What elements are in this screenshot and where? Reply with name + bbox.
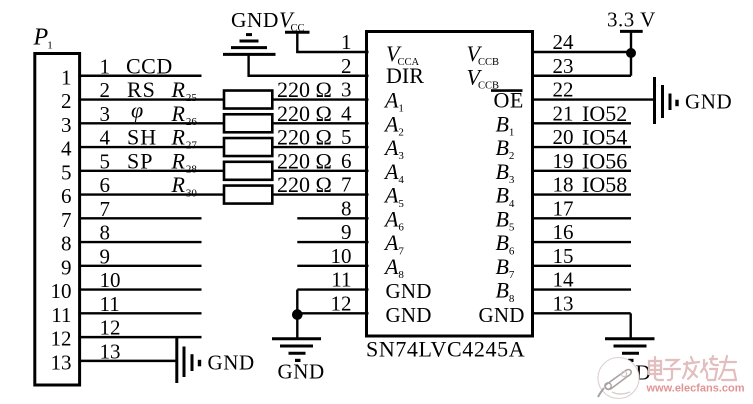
svg-text:18: 18: [553, 173, 574, 197]
net label IO54: [582, 125, 627, 150]
svg-text:B: B: [496, 111, 509, 136]
svg-text:13: 13: [51, 350, 72, 374]
power symbol VCC (T-bar): [285, 31, 310, 34]
svg-text:11: 11: [51, 303, 71, 327]
IC pin 11 number: [331, 268, 351, 292]
IC pin14 label B8: [496, 278, 515, 305]
IC U1 SN74LVC4245A body: [367, 32, 533, 337]
wire resistor R26 to IC pin 4: [271, 122, 368, 124]
svg-text:1: 1: [47, 40, 53, 52]
wire GND net vertical: [296, 290, 298, 339]
svg-text:R: R: [171, 172, 186, 197]
svg-text:10: 10: [331, 244, 352, 268]
IC pin 9 number: [341, 220, 352, 244]
IC pin10 label A8: [383, 254, 404, 281]
resistor R28 body: [224, 162, 272, 180]
IC pin 13 number: [553, 291, 574, 315]
svg-text:24: 24: [553, 30, 575, 54]
svg-text:19: 19: [553, 149, 574, 173]
IC pin3 label A1: [383, 88, 404, 115]
power symbol 3.3V (T-bar): [620, 31, 643, 53]
IC pin 10 number: [331, 244, 352, 268]
IC pin2 label DIR: [386, 63, 424, 88]
wire IC pin16 stub: [532, 241, 632, 243]
GND label (middle bottom): [278, 360, 325, 384]
IC pin 4 number: [341, 101, 352, 125]
IC pin 21 number: [553, 101, 574, 125]
resistor R25 body: [224, 91, 272, 109]
watermark text dianzifashaoyou (vector): [649, 356, 736, 380]
IC pin1 label VCCA: [386, 41, 420, 68]
value label 220 ohm (pin 7): [277, 172, 332, 197]
P1 pin2 wire number label: [100, 78, 111, 102]
svg-text:2: 2: [100, 78, 111, 102]
svg-text:220 Ω: 220 Ω: [277, 148, 332, 173]
svg-text:7: 7: [398, 245, 404, 257]
GND label (P1 pin13): [208, 351, 255, 375]
net label phi: [131, 97, 143, 122]
IC pin7 label A5: [383, 183, 404, 210]
IC pin 1 number: [341, 30, 352, 54]
IC pin 8 number: [341, 196, 352, 220]
P1 pin8 wire number label: [100, 221, 111, 245]
svg-text:GND: GND: [479, 303, 525, 327]
net label IO52: [582, 101, 627, 126]
svg-text:SH: SH: [127, 125, 157, 150]
svg-text:3: 3: [61, 113, 72, 137]
resistor R30 body: [224, 186, 272, 204]
svg-text:R: R: [171, 77, 186, 102]
svg-text:14: 14: [553, 268, 575, 292]
wire IC pin20 stub: [532, 146, 632, 148]
svg-text:27: 27: [186, 140, 198, 152]
wire IC pin9 stub: [297, 241, 368, 243]
P1 pin 1 number (inside): [61, 65, 72, 89]
svg-text:10: 10: [100, 268, 121, 292]
IC pin23 label VCCB: [467, 64, 500, 91]
svg-text:GND: GND: [386, 279, 432, 303]
ground symbol (OE, sideways): [655, 77, 678, 124]
svg-text:9: 9: [61, 255, 72, 279]
svg-text:φ: φ: [131, 97, 143, 122]
net label SH: [127, 125, 157, 150]
svg-text:6: 6: [509, 245, 515, 257]
svg-text:12: 12: [100, 316, 121, 340]
resistor R27 refdes: [171, 125, 198, 152]
svg-text:11: 11: [331, 268, 351, 292]
svg-text:4: 4: [61, 137, 72, 161]
svg-text:SN74LVC4245A: SN74LVC4245A: [366, 337, 525, 362]
svg-text:3: 3: [509, 174, 515, 186]
wire IC pin18 stub: [532, 193, 632, 195]
wire P1 pin10 stub: [78, 288, 201, 290]
junction dot (GND net): [292, 309, 303, 320]
svg-text:9: 9: [341, 220, 352, 244]
svg-text:20: 20: [553, 125, 574, 149]
IC pin 2 number: [341, 54, 352, 78]
wire P1 pin2 to resistor R25: [78, 98, 226, 100]
svg-text:5: 5: [61, 160, 72, 184]
IC pin15 label B7: [496, 254, 515, 281]
svg-text:15: 15: [553, 244, 574, 268]
svg-text:7: 7: [100, 197, 111, 221]
wire IC pin13 to GND: [532, 313, 631, 339]
svg-text:3.3 V: 3.3 V: [607, 8, 656, 32]
svg-text:25: 25: [186, 92, 198, 104]
P1 pin5 wire number label: [100, 149, 111, 173]
svg-text:13: 13: [100, 339, 121, 363]
svg-text:IO52: IO52: [582, 101, 627, 126]
svg-text:1: 1: [100, 54, 111, 78]
IC pin 17 number: [553, 196, 574, 220]
wire IC pin24 to 3.3V node: [532, 51, 632, 53]
net label IO56: [582, 148, 627, 173]
svg-text:220 Ω: 220 Ω: [277, 172, 332, 197]
svg-text:B: B: [496, 254, 509, 279]
IC pin6 label A4: [383, 159, 404, 186]
svg-text:R: R: [171, 101, 186, 126]
svg-text:6: 6: [398, 222, 404, 234]
svg-text:7: 7: [61, 208, 72, 232]
P1 pin4 wire number label: [100, 126, 111, 150]
IC pin8 label A6: [383, 206, 404, 233]
svg-text:2: 2: [341, 54, 352, 78]
svg-text:5: 5: [509, 222, 515, 234]
P1 pin6 wire number label: [100, 173, 111, 197]
IC pin17 label B5: [496, 206, 515, 233]
svg-text:7: 7: [341, 173, 352, 197]
IC pin 24 number: [553, 30, 575, 54]
ground symbol (bottom right): [605, 339, 655, 361]
P1 pin 8 number (inside): [61, 232, 72, 256]
IC pin 14 number: [553, 268, 575, 292]
P1 pin13 wire number label: [100, 339, 121, 363]
P1 pin3 wire number label: [100, 102, 111, 126]
svg-text:IO58: IO58: [582, 172, 627, 197]
value label 220 ohm (pin 5): [277, 125, 332, 150]
value label 220 ohm (pin 6): [277, 148, 332, 173]
IC part number label SN74LVC4245A: [366, 337, 525, 362]
svg-text:1: 1: [509, 126, 514, 138]
svg-text:28: 28: [186, 164, 198, 176]
P1 pin12 wire number label: [100, 316, 121, 340]
3.3V label: [607, 8, 656, 32]
IC pin4 label A2: [383, 111, 404, 138]
wire IC pin10 stub: [297, 265, 368, 267]
svg-text:CCB: CCB: [478, 57, 499, 68]
svg-text:220 Ω: 220 Ω: [277, 77, 332, 102]
svg-text:4: 4: [509, 198, 515, 210]
wire P1 pin8 stub: [78, 241, 201, 243]
svg-text:12: 12: [331, 291, 352, 315]
wire resistor R28 to IC pin 6: [271, 170, 368, 172]
svg-text:6: 6: [61, 184, 72, 208]
IC pin 22 number: [553, 78, 574, 102]
P1 pin 12 number (inside): [51, 327, 72, 351]
P1 pin7 wire number label: [100, 197, 111, 221]
P1 pin 4 number (inside): [61, 137, 72, 161]
svg-text:4: 4: [341, 101, 352, 125]
net label CCD: [126, 53, 173, 78]
IC pin20 label B2: [496, 135, 515, 162]
svg-text:6: 6: [341, 149, 352, 173]
P1 pin10 wire number label: [100, 268, 121, 292]
svg-text:B: B: [496, 278, 509, 303]
IC pin12 label GND: [386, 303, 432, 327]
P1 pin 11 number (inside): [51, 303, 71, 327]
wire IC pin11 (GND): [297, 288, 368, 290]
svg-text:3: 3: [398, 150, 404, 162]
svg-text:SP: SP: [127, 148, 153, 173]
IC pin16 label B6: [496, 230, 515, 257]
wire IC pin14 stub: [532, 288, 632, 290]
connector P1 refdes label P1: [33, 25, 53, 52]
P1 pin 2 number (inside): [61, 89, 72, 113]
wire P1 pin3 to resistor R26: [78, 122, 226, 124]
svg-text:4: 4: [398, 174, 404, 186]
svg-text:4: 4: [100, 126, 111, 150]
svg-text:1: 1: [398, 103, 404, 115]
wire IC pin21 stub: [532, 122, 632, 124]
wire IC pin12 (GND): [297, 312, 368, 314]
svg-text:16: 16: [553, 220, 574, 244]
svg-text:8: 8: [61, 232, 72, 256]
svg-text:21: 21: [553, 101, 574, 125]
resistor R28 refdes: [171, 148, 198, 175]
wire IC pin23 to 3.3V node: [532, 53, 632, 76]
P1 pin11 wire number label: [100, 292, 120, 316]
wire IC pin22 (OE) to GND: [532, 98, 654, 100]
IC pin 3 number: [341, 78, 352, 102]
resistor R30 refdes: [171, 172, 198, 199]
net label SP: [127, 148, 153, 173]
watermark text www.elecfans.com: [646, 383, 745, 395]
wire P1 pin9 stub: [78, 265, 201, 267]
wire IC pin8 stub: [297, 217, 368, 219]
svg-text:5: 5: [341, 125, 352, 149]
P1 pin 9 number (inside): [61, 255, 72, 279]
wire P1 pin6 to resistor R30: [78, 193, 226, 195]
svg-text:5: 5: [398, 198, 404, 210]
svg-text:10: 10: [51, 279, 72, 303]
svg-text:A: A: [383, 183, 399, 208]
svg-text:A: A: [383, 206, 399, 231]
value label 220 ohm (pin 3): [277, 77, 332, 102]
IC pin9 label A7: [383, 230, 404, 257]
power symbol GND (top, pointing up): [223, 35, 276, 55]
P1 pin 5 number (inside): [61, 160, 72, 184]
GND label (top): [231, 8, 279, 32]
wire IC pin15 stub: [532, 265, 632, 267]
IC pin 19 number: [553, 149, 574, 173]
svg-text:B: B: [496, 159, 509, 184]
svg-text:6: 6: [100, 173, 111, 197]
svg-text:P: P: [33, 25, 49, 51]
IC pin18 label B4: [496, 183, 515, 210]
resistor R26 body: [224, 114, 272, 132]
svg-text:A: A: [383, 254, 399, 279]
wire P1 pin11 stub: [78, 312, 201, 314]
svg-text:B: B: [496, 183, 509, 208]
svg-text:B: B: [496, 206, 509, 231]
IC pin22 label OE with overline: [491, 88, 524, 113]
IC pin 16 number: [553, 220, 574, 244]
P1 pin1 wire number label 1: [100, 54, 111, 78]
svg-text:26: 26: [186, 116, 198, 128]
svg-text:A: A: [383, 111, 399, 136]
IC pin 20 number: [553, 125, 574, 149]
wire IC pin17 stub: [532, 217, 632, 219]
wire IC pin19 stub: [532, 170, 632, 172]
svg-text:IO54: IO54: [582, 125, 627, 150]
svg-text:3: 3: [100, 102, 111, 126]
IC pin 7 number: [341, 173, 352, 197]
svg-text:9: 9: [100, 244, 111, 268]
svg-text:IO56: IO56: [582, 148, 627, 173]
P1 pin 10 number (inside): [51, 279, 72, 303]
net label IO58: [582, 172, 627, 197]
VCC label: [279, 7, 305, 34]
svg-text:7: 7: [509, 269, 515, 281]
svg-text:A: A: [383, 88, 399, 113]
wire P1 pin4 to resistor R27: [78, 146, 226, 148]
svg-text:8: 8: [100, 221, 111, 245]
wire P1 pin7 stub: [78, 217, 201, 219]
IC pin5 label A3: [383, 135, 404, 162]
wire P1 pin5 to resistor R28: [78, 170, 226, 172]
svg-text:GND: GND: [386, 303, 432, 327]
svg-text:13: 13: [553, 291, 574, 315]
IC pin 18 number: [553, 173, 574, 197]
wire P1 pin12 stub: [78, 336, 201, 338]
svg-text:1: 1: [61, 65, 72, 89]
svg-text:B: B: [496, 230, 509, 255]
ground symbol (P1 pin13, sideways): [177, 338, 200, 383]
wire VCC to IC pin1 (VCCA): [296, 32, 368, 53]
svg-text:2: 2: [61, 89, 72, 113]
resistor R27 body: [224, 138, 272, 156]
IC pin19 label B3: [496, 159, 515, 186]
svg-text:GND: GND: [278, 360, 325, 384]
P1 pin 3 number (inside): [61, 113, 72, 137]
IC pin 15 number: [553, 244, 574, 268]
value label 220 ohm (pin 4): [277, 101, 332, 126]
P1 pin9 wire number label: [100, 244, 111, 268]
svg-text:11: 11: [100, 292, 120, 316]
IC pin21 label B1: [496, 111, 515, 138]
P1 pin 6 number (inside): [61, 184, 72, 208]
svg-text:A: A: [383, 135, 399, 160]
IC pin 23 number: [553, 54, 574, 78]
P1 pin 7 number (inside): [61, 208, 72, 232]
connector P1 body: [35, 54, 80, 386]
junction dot (3.3V net): [626, 48, 636, 58]
GND label (bottom right, partly covered by watermark): [604, 361, 651, 385]
svg-text:23: 23: [553, 54, 574, 78]
svg-text:30: 30: [186, 187, 198, 199]
svg-text:8: 8: [341, 196, 352, 220]
wire P1 pin1 CCD stub: [78, 75, 201, 77]
net label RS: [127, 77, 156, 102]
IC pin 6 number: [341, 149, 352, 173]
svg-text:2: 2: [509, 150, 514, 162]
svg-text:R: R: [171, 125, 186, 150]
resistor R25 refdes: [171, 77, 198, 104]
svg-text:17: 17: [553, 196, 574, 220]
svg-text:220 Ω: 220 Ω: [277, 101, 332, 126]
wire P1 pin13 to GND: [78, 360, 176, 362]
svg-text:3: 3: [341, 78, 352, 102]
IC pin 5 number: [341, 125, 352, 149]
resistor R26 refdes: [171, 101, 198, 128]
svg-text:www.elecfans.com: www.elecfans.com: [646, 383, 745, 395]
svg-text:R: R: [171, 148, 186, 173]
svg-text:GND: GND: [208, 351, 255, 375]
svg-text:1: 1: [341, 30, 352, 54]
IC pin24 label VCCB: [467, 41, 500, 68]
IC pin 12 number: [331, 291, 352, 315]
wire resistor R27 to IC pin 5: [271, 146, 368, 148]
svg-text:CCD: CCD: [126, 53, 173, 78]
wire top GND to IC pin2 (DIR): [248, 54, 369, 76]
IC pin11 label GND: [386, 279, 432, 303]
svg-text:5: 5: [100, 149, 111, 173]
svg-text:22: 22: [553, 78, 574, 102]
svg-text:12: 12: [51, 327, 72, 351]
ground symbol (middle bottom): [272, 339, 321, 361]
IC pin13 label GND: [479, 303, 525, 327]
svg-text:B: B: [496, 135, 509, 160]
watermark logo circle: [598, 358, 639, 399]
GND label (OE): [685, 90, 732, 114]
svg-text:GND: GND: [231, 8, 279, 32]
svg-text:GND: GND: [685, 90, 732, 114]
wire resistor R25 to IC pin 3: [271, 98, 368, 100]
wire resistor R30 to IC pin 7: [271, 193, 368, 195]
svg-text:DIR: DIR: [386, 63, 424, 88]
P1 pin 13 number (inside): [51, 350, 72, 374]
svg-text:A: A: [383, 159, 399, 184]
svg-text:A: A: [383, 230, 399, 255]
svg-text:220 Ω: 220 Ω: [277, 125, 332, 150]
svg-text:2: 2: [398, 126, 404, 138]
